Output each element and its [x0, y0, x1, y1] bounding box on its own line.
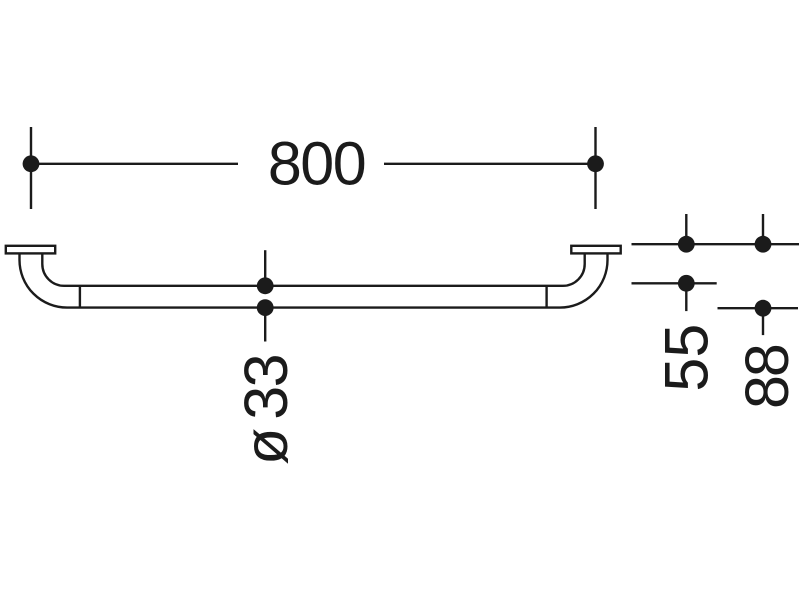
svg-text:88: 88	[733, 345, 801, 409]
svg-text:55: 55	[653, 324, 721, 392]
svg-text:ø 33: ø 33	[232, 355, 300, 465]
svg-text:800: 800	[268, 130, 365, 198]
